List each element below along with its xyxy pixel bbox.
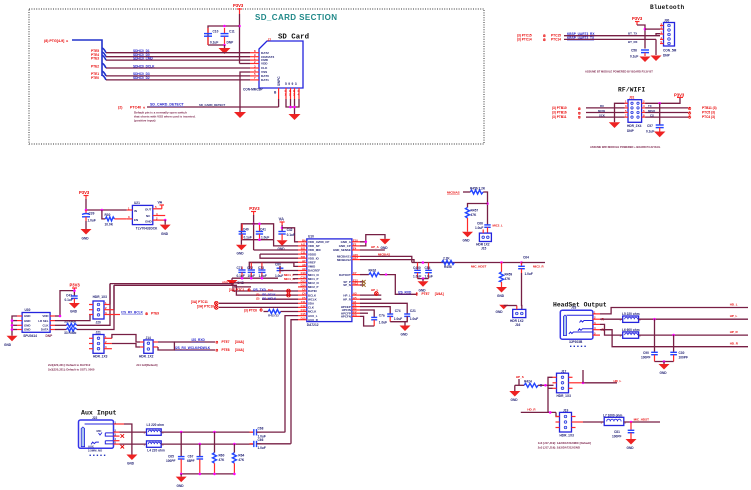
wire pin row2 down [655,39,657,55]
svg-text:0.1uF: 0.1uF [210,41,218,45]
node VB [281,227,284,230]
SECTION_BLUETOOTH [517,4,685,74]
power P3V3 mic [70,283,81,291]
wire micbias end [522,262,546,264]
svg-text:C84: C84 [425,266,431,270]
svg-text:L7 1000 ohm: L7 1000 ohm [603,413,622,417]
node micbias2 [486,202,489,205]
ground c81 [626,439,637,450]
wire GND_A group [360,235,385,242]
svg-text:HP_S: HP_S [516,375,524,379]
wire J21 pin2 [112,344,140,348]
svg-text:C74: C74 [395,309,401,313]
ground headset caps [659,362,670,376]
svg-text:HeadSet Output: HeadSet Output [553,302,607,309]
wire HPCFP stub [360,312,368,314]
svg-text:C1: C1 [353,303,357,307]
svg-text:PTE3: PTE3 [91,56,99,60]
svg-text:D15: D15 [301,316,306,320]
capacitor C67 68PF [187,444,203,474]
node r424 [544,384,547,387]
resistor R458 2.2K [442,256,455,268]
net label I2S_RXD [398,290,444,296]
wire hd4 to j19 [556,412,560,416]
wire datout route [380,275,417,295]
wire micbias main [412,262,522,264]
capacitor C84 [425,263,433,279]
ground r459 [496,287,507,298]
svg-text:P3V3: P3V3 [79,190,90,195]
svg-text:C15: C15 [301,312,306,316]
svg-text:HP_L: HP_L [371,288,379,292]
pin stubs J22 [114,424,125,444]
ground caps row [227,278,245,285]
wire pin2 to bead1 [120,431,147,433]
pin stubs U10 right [352,242,360,317]
resistor R416 [369,268,380,276]
svg-text:47K: 47K [505,277,512,281]
label HDR_2X4 DNP [627,124,642,133]
svg-text:MICBIAS2: MICBIAS2 [337,258,351,262]
wire VSS to ground [240,72,250,112]
svg-text:1.0uF: 1.0uF [88,219,96,223]
svg-text:1.0uF: 1.0uF [394,317,402,321]
svg-text:A11: A11 [301,243,306,247]
wire I2S_RX_WCLK row [174,349,215,351]
svg-text:C66: C66 [258,438,264,442]
net label PTC6 [244,308,264,313]
svg-text:C65: C65 [168,455,174,459]
wire SDHC0_DCLK [106,67,250,69]
pin names SD card [261,51,274,82]
svg-text:CS: CS [650,113,654,117]
capacitor C42 [278,228,295,240]
ground below caps [219,45,231,54]
node caps gnd [663,360,666,363]
svg-text:DNP: DNP [227,41,235,45]
header J17 HDR_1X3 [557,369,572,398]
svg-text:SPU0414: SPU0414 [23,334,37,338]
svg-text:Aux Input: Aux Input [81,410,117,417]
ground rf cap [654,132,665,138]
svg-text:IN: IN [134,209,137,213]
pin stub shield 4 [298,88,300,99]
mic U30 body [22,308,53,338]
wire vdd feed row4 [260,253,298,255]
wire pin2 to bead [600,318,623,320]
svg-text:33 R40b: 33 R40b [64,331,76,335]
svg-text:D11: D11 [301,255,306,259]
svg-text:PTC40: PTC40 [130,106,141,110]
svg-text:J20: J20 [96,321,102,325]
svg-text:PTE2: PTE2 [91,64,99,68]
svg-text:MIC2_R: MIC2_R [533,264,545,268]
node reg gnd [164,219,167,222]
svg-text:⦽: ⦽ [416,291,419,296]
ground r457 [462,232,473,243]
pin flags J22 [121,434,125,448]
wire P3V3 to cap [637,25,645,49]
wire caps gnd bar [390,316,407,321]
svg-text:PTC4 (3): PTC4 (3) [702,115,715,119]
ground r424 [509,385,520,402]
connector flag BCLK [287,293,291,297]
bus branch 3 [102,55,106,60]
svg-text:ASSUME WIFI MODULE POWERED + B: ASSUME WIFI MODULE POWERED + BOARD P3.3V… [590,145,661,149]
svg-text:U21: U21 [134,201,140,205]
node c71 [241,277,244,280]
svg-text:C14: C14 [301,275,306,279]
power P3V3 [233,3,244,14]
svg-text:CON_5M: CON_5M [663,49,677,53]
wire SDHC0_D0 [106,56,250,58]
node bank top [252,223,255,226]
capacitor C57 [646,124,664,134]
resistor R415 33 [264,310,299,318]
header J16 HDR_1X2 mic select [510,309,526,327]
svg-text:A9: A9 [302,267,306,271]
svg-text:100PF: 100PF [612,435,621,439]
capacitor C11 DNP [221,28,235,45]
net label PTC1 I2S_TXD [229,287,273,292]
svg-text:D13: D13 [301,279,306,283]
capacitor C66 [475,222,491,234]
svg-text:A17: A17 [353,256,358,260]
svg-text:DNP: DNP [663,54,671,58]
svg-text:DATOUT: DATOUT [339,273,351,277]
wire rf left row2 [586,107,625,109]
ground chip right [380,239,391,250]
svg-text:GND: GND [4,343,12,347]
svg-text:PTE7: PTE7 [222,340,230,344]
svg-text:PTB11 (3): PTB11 (3) [702,106,717,110]
header J15 HDR_1X2 [476,233,491,251]
wire rf left row3 [586,112,625,114]
wire rf right row1 [645,97,680,103]
svg-text:C56: C56 [631,49,637,53]
header J20 HDR_1X3 [93,295,108,325]
svg-text:C3: C3 [353,313,357,317]
connector J7 SD Card body [259,41,303,88]
svg-text:C72: C72 [247,266,253,270]
node c73 [261,277,264,280]
svg-text:L6 600 ohm: L6 600 ohm [622,328,640,332]
wire WCLK [262,298,298,300]
pin names U10 left [308,240,329,322]
connector flag HP [374,292,378,296]
bus branch 6 [102,75,106,80]
svg-text:OUT: OUT [145,208,152,212]
svg-text:SP_N: SP_N [343,283,351,287]
svg-text:0.1uF: 0.1uF [65,298,73,302]
svg-text:GND: GND [496,310,504,314]
svg-text:PTE7: PTE7 [422,292,430,296]
svg-text:1.0uF: 1.0uF [275,274,283,278]
svg-text:C67: C67 [188,455,194,459]
capacitor C80 dacref [275,263,283,279]
ground c400 [418,279,429,293]
svg-text:C40: C40 [243,227,249,231]
svg-text:C11: C11 [301,300,306,304]
svg-text:U10: U10 [308,235,314,239]
svg-text:C30: C30 [679,351,685,355]
svg-text:GND: GND [24,319,30,323]
node reg en [101,209,104,212]
node C400 [422,261,425,264]
pin numbers J30 [661,22,663,44]
resistor R64 47K [232,444,245,474]
svg-text:HD_R: HD_R [730,341,739,345]
note text mic headers [48,363,158,372]
svg-text:DA7212: DA7212 [307,323,319,327]
svg-text:[3A] PTC1: [3A] PTC1 [229,288,244,292]
net label MIC1_P [284,273,298,277]
svg-text:HDR_1X3: HDR_1X3 [560,434,575,438]
wire rf gnd row [615,103,625,122]
ground bt cap [640,57,651,63]
wire J16 gnd [509,305,517,307]
bus branch 4 [102,63,106,68]
svg-text:I2S_RXD: I2S_RXD [192,338,206,342]
capacitor C39 [82,210,96,223]
svg-text:C13: C13 [301,271,306,275]
wire BT_RX row [564,38,656,40]
net label MIC2 rows [222,281,298,287]
header J21 HDR_1X3 [93,331,108,359]
svg-text:⦻: ⦻ [543,37,546,42]
note text bottom headers [538,441,591,450]
noconnect SP_P [360,280,366,284]
svg-text:J7: J7 [268,38,272,42]
svg-text:DNP: DNP [46,334,54,338]
svg-text:MIC2_L: MIC2_L [493,224,504,228]
svg-text:C42: C42 [287,228,293,232]
ferrite L7 1000ohm [601,413,627,425]
svg-text:⦻: ⦻ [216,348,219,353]
pin names U10 right [333,240,352,319]
svg-text:J14: J14 [146,336,152,340]
svg-text:VA: VA [279,217,285,222]
wire HP_R [639,334,748,336]
svg-text:HDR_1X3: HDR_1X3 [93,295,108,299]
svg-text:HD_L: HD_L [614,379,622,383]
svg-text:MIC_HDST: MIC_HDST [634,418,650,422]
svg-text:P3V3: P3V3 [233,3,244,8]
svg-text:A8: A8 [302,263,306,267]
svg-text:1.0uF: 1.0uF [425,275,433,279]
wire AUX_L [285,316,298,433]
connector flag DATIN [287,289,291,293]
svg-text:HD_L: HD_L [730,302,738,306]
wire hd4 row [521,411,556,413]
node cap bottom [223,44,226,47]
pin stubs rf right [642,103,646,117]
wire MIC_HDST out [624,421,660,423]
svg-text:MICBIAS: MICBIAS [447,191,460,195]
svg-text:PTC14: PTC14 [551,38,561,42]
ground aux bus [176,474,187,488]
svg-text:DNP: DNP [627,129,635,133]
label CON_5M DNP [663,49,677,58]
pin flags J18 [602,317,605,332]
svg-text:DATA: DATA [41,328,50,332]
svg-text:EN: EN [134,218,138,222]
svg-text:47K: 47K [219,458,226,462]
wire VB to chip [282,228,298,242]
svg-text:E2: E2 [353,243,357,247]
svg-text:1x3 [J17,J19]: 1&2/DA7212/MIC: 1x3 [J17,J19]: 1&2/DA7212/MIC [Default] [538,441,591,445]
svg-text:I2S_TXD: I2S_TXD [253,288,267,292]
node gnd bus 2 [199,473,202,476]
svg-text:L5 220 ohm: L5 220 ohm [622,312,640,316]
pin stub J16 [516,306,518,310]
net label PTC11 [191,300,218,305]
wire vdd feed row5 [260,254,298,258]
svg-text:2x3 [J17,J19]: 2&3/DA7212/GND: 2x3 [J17,J19]: 2&3/DA7212/GND [538,446,580,450]
svg-text:C21: C21 [410,309,416,313]
wire pin3 to bead2 [120,443,147,445]
capacitor C10 [204,28,219,45]
svg-text:GND: GND [237,252,245,256]
wire DATOUT [360,274,369,276]
wire J20 pin1 up [109,284,111,305]
svg-text:C71: C71 [237,266,243,270]
svg-text:2.2K: 2.2K [443,256,450,260]
pin numbers J20 [105,301,107,315]
capacitor C71 [237,266,246,278]
pin stub J15 left [482,230,484,234]
SECTION_MICBIAS [447,186,503,250]
svg-text:PTE9: PTE9 [151,312,159,316]
node mic cap [630,421,633,424]
svg-text:1.0uF: 1.0uF [413,275,421,279]
wire HP_L [639,318,748,320]
node r459 [500,261,503,264]
ferrite L5 220ohm [620,312,642,322]
svg-text:C66: C66 [477,222,483,226]
wire to r457 [468,204,488,208]
bus branch 2 [102,52,106,57]
wire node to cap [659,103,661,125]
wire r424 row [519,384,524,386]
wire SDHC0_D2 [106,79,250,81]
svg-text:RF/WIFI: RF/WIFI [618,87,645,94]
node vdd [59,315,62,318]
svg-text:A13: A13 [353,282,358,286]
wire data to header [77,285,114,329]
ground reg cap [81,229,92,241]
pin stubs J30 [660,26,664,44]
noconnect SP_N [360,283,366,287]
svg-text:HP_L: HP_L [730,314,738,318]
wire clk to header [77,284,110,326]
connector J30 CON_5M [664,19,675,47]
node datout [385,273,387,275]
capacitor C64 series [518,256,533,277]
power P3V3 regulator [79,190,90,199]
svg-text:L3 220 ohm: L3 220 ohm [147,423,165,427]
jack J18 body [560,306,593,347]
capacitor C41 [256,224,270,240]
svg-text:MIC: MIC [97,429,102,433]
svg-text:SD_CARD_DETECT: SD_CARD_DETECT [150,103,185,107]
svg-text:(3) PTC14: (3) PTC14 [517,38,532,42]
wire P3V3 mic rail [60,291,74,316]
svg-text:R60: R60 [219,454,225,458]
header J14 HDR_1X2 [139,336,154,359]
wire vref rail [249,263,298,269]
wire U30 gnd bus [12,316,17,336]
svg-text:⦻: ⦻ [578,115,581,120]
bus branch 1 [102,48,106,53]
resistor R40 33 [55,320,77,328]
node gnd bus 1 [180,473,183,476]
wire dacref [280,266,298,271]
pin stubs U30 right [50,316,55,330]
svg-text:SCK: SCK [599,113,605,117]
svg-text:D14: D14 [301,284,306,288]
node gnd bus 4 [233,473,236,476]
svg-text:C12: C12 [301,304,306,308]
wire SDHC0_CMD [106,59,250,61]
node cap top [223,25,226,28]
ground shield [289,114,301,120]
svg-text:1.0uF: 1.0uF [258,446,266,450]
svg-text:E4: E4 [353,247,357,251]
wire SDHC0_D1 [106,52,250,54]
net label PTC40 [118,105,146,110]
svg-text:0.1uF: 0.1uF [244,235,252,239]
power P3V3 cap bank [249,206,260,215]
label wifi pins right [648,104,656,117]
svg-text:GND: GND [401,333,409,337]
wire AUX_R [291,320,298,444]
wire HP_L [360,294,381,296]
node hp_r cap [672,334,675,337]
ground C42 [277,240,288,251]
wire HD_L [600,308,748,314]
ground cap bank [236,240,247,256]
svg-text:1.0uF: 1.0uF [379,321,387,325]
svg-text:C80: C80 [275,263,281,267]
node gnd group [365,241,368,244]
node hd4 [549,411,552,414]
svg-text:0.1uF: 0.1uF [287,233,295,237]
net label I2S_RXD left [192,338,244,344]
svg-text:GND: GND [497,294,505,298]
svg-text:GND: GND [24,328,30,332]
wire r424 to j17 [538,384,553,386]
svg-text:GND: GND [177,484,185,488]
wire rf right row4 [645,116,688,118]
svg-text:SDHC0_D2: SDHC0_D2 [133,76,150,80]
ground VSS [234,112,246,118]
wire shield merge [286,99,299,107]
svg-text:3JP303B: 3JP303B [569,340,583,344]
svg-text:C7a: C7a [379,313,385,317]
capacitor C400 [413,263,421,279]
svg-text:HP_R: HP_R [730,330,739,334]
svg-text:VA: VA [158,201,163,205]
svg-text:GND: GND [627,446,635,450]
svg-text:GND: GND [660,371,668,375]
pin numbers shield [285,89,300,97]
wire HPCFN loop [360,316,374,326]
svg-text:⦻: ⦻ [216,340,219,345]
svg-text:I2S_RXD: I2S_RXD [398,290,412,294]
svg-text:47K: 47K [471,213,478,217]
SECTION_HEADSET [553,302,748,376]
